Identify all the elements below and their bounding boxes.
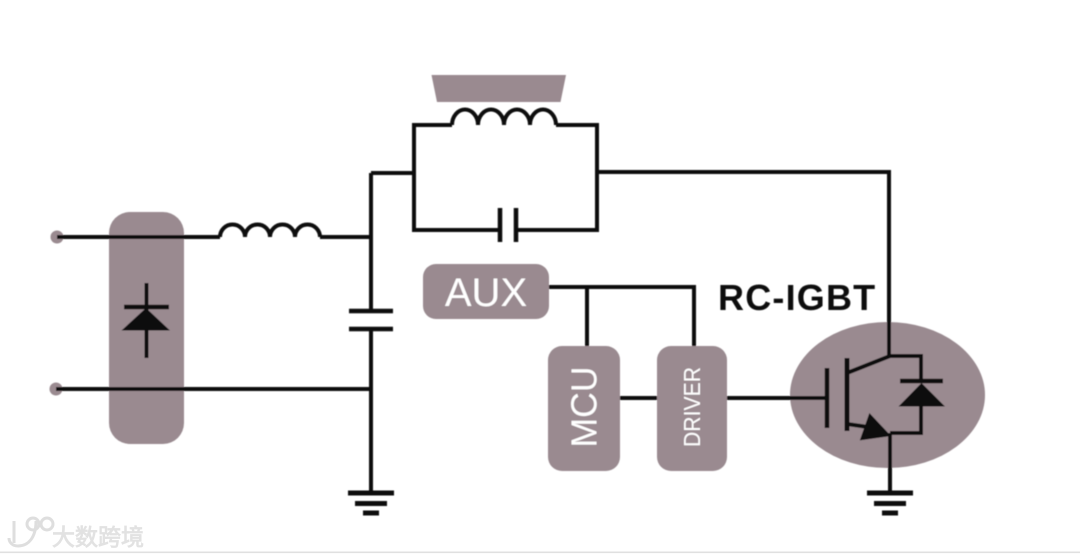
svg-text:DRIVER: DRIVER [679,367,705,447]
svg-text:MCU: MCU [564,367,605,448]
svg-text:RC-IGBT: RC-IGBT [718,277,876,318]
svg-text:AUX: AUX [445,271,527,315]
svg-text:大数跨境: 大数跨境 [52,524,144,550]
